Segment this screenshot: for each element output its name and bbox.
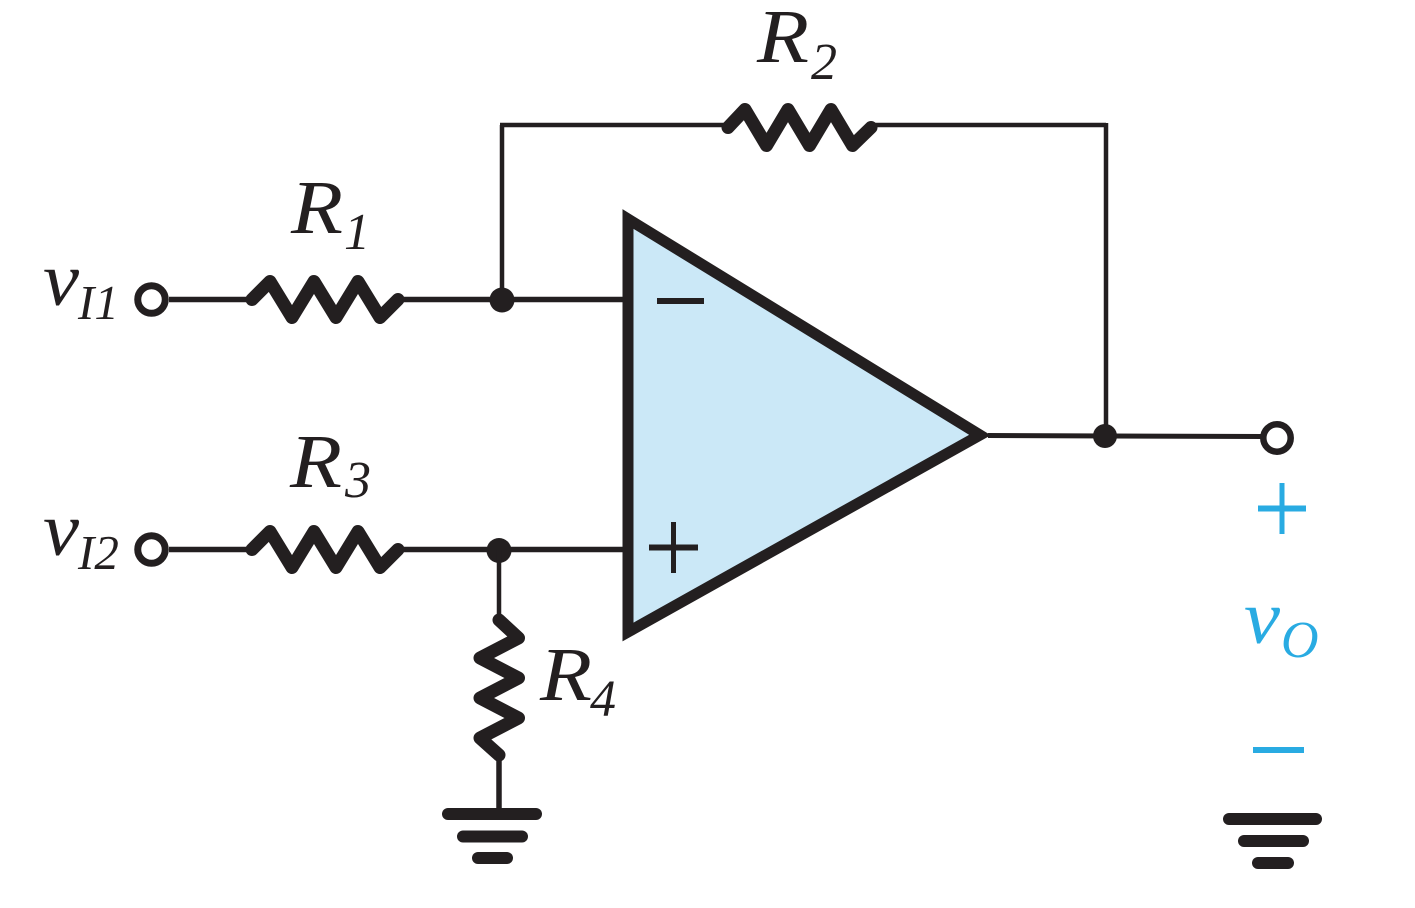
ground (left, below R4) bbox=[448, 814, 536, 858]
node: output junction (dot) bbox=[1093, 424, 1117, 448]
svg-text:1: 1 bbox=[344, 204, 370, 261]
wire: feedback right vertical down to output node bbox=[1104, 123, 1109, 436]
terminal circle vI1 bbox=[138, 286, 166, 314]
svg-text:2: 2 bbox=[811, 34, 837, 91]
plus polarity mark (cyan) bbox=[1258, 483, 1306, 534]
label R1 bbox=[290, 166, 370, 261]
resistor R1 (zigzag) bbox=[252, 282, 398, 318]
terminal circle vI2 bbox=[138, 536, 166, 564]
svg-text:R: R bbox=[289, 420, 342, 504]
op-amp non-inverting input marker (plus) bbox=[649, 522, 698, 573]
svg-text:R: R bbox=[756, 0, 809, 79]
wire: feedback top-left horizontal to R2 bbox=[500, 123, 730, 128]
resistor R4 (vertical zigzag) bbox=[480, 620, 519, 755]
wire: R2 to top-right corner bbox=[875, 123, 1106, 128]
wire: vI2 terminal to R3 bbox=[169, 547, 253, 553]
svg-text:3: 3 bbox=[344, 452, 371, 509]
svg-text:v: v bbox=[1244, 576, 1280, 660]
svg-text:v: v bbox=[43, 488, 79, 572]
op-amp inverting input marker (minus) bbox=[657, 298, 704, 304]
terminal circle vO bbox=[1263, 424, 1290, 451]
minus polarity mark (cyan) bbox=[1253, 747, 1304, 753]
svg-text:O: O bbox=[1281, 612, 1319, 669]
op-amp U1 (triangle) bbox=[628, 219, 980, 632]
label vO (cyan) bbox=[1244, 576, 1319, 669]
svg-text:v: v bbox=[43, 238, 79, 322]
node: inverting input junction (dot) bbox=[490, 288, 515, 313]
label vI1 bbox=[43, 238, 119, 330]
svg-text:I2: I2 bbox=[77, 525, 119, 580]
label vI2 bbox=[43, 488, 119, 580]
label R3 bbox=[289, 420, 371, 509]
resistor R2 (zigzag) bbox=[728, 110, 871, 146]
svg-text:R: R bbox=[290, 166, 343, 250]
ground (right, output reference) bbox=[1229, 819, 1316, 863]
svg-text:I1: I1 bbox=[77, 275, 119, 330]
wire: op-amp output to terminal bbox=[988, 436, 1262, 437]
wire: R1 to op-amp inverting input bbox=[398, 297, 625, 303]
wire: R4 to ground bbox=[496, 755, 502, 812]
label R2 bbox=[756, 0, 837, 91]
svg-text:4: 4 bbox=[590, 671, 616, 728]
wire: node down to R4 bbox=[497, 550, 502, 621]
node: non-inverting input junction (dot) bbox=[487, 538, 512, 563]
wire: vI1 terminal to R1 bbox=[169, 297, 253, 303]
resistor R3 (zigzag) bbox=[252, 532, 398, 568]
label R4 bbox=[539, 633, 616, 728]
wire: feedback loop left vertical (inverting node up to R2 row) bbox=[500, 125, 505, 300]
svg-text:R: R bbox=[539, 633, 592, 717]
wire: R3 to op-amp non-inverting input bbox=[398, 547, 625, 553]
